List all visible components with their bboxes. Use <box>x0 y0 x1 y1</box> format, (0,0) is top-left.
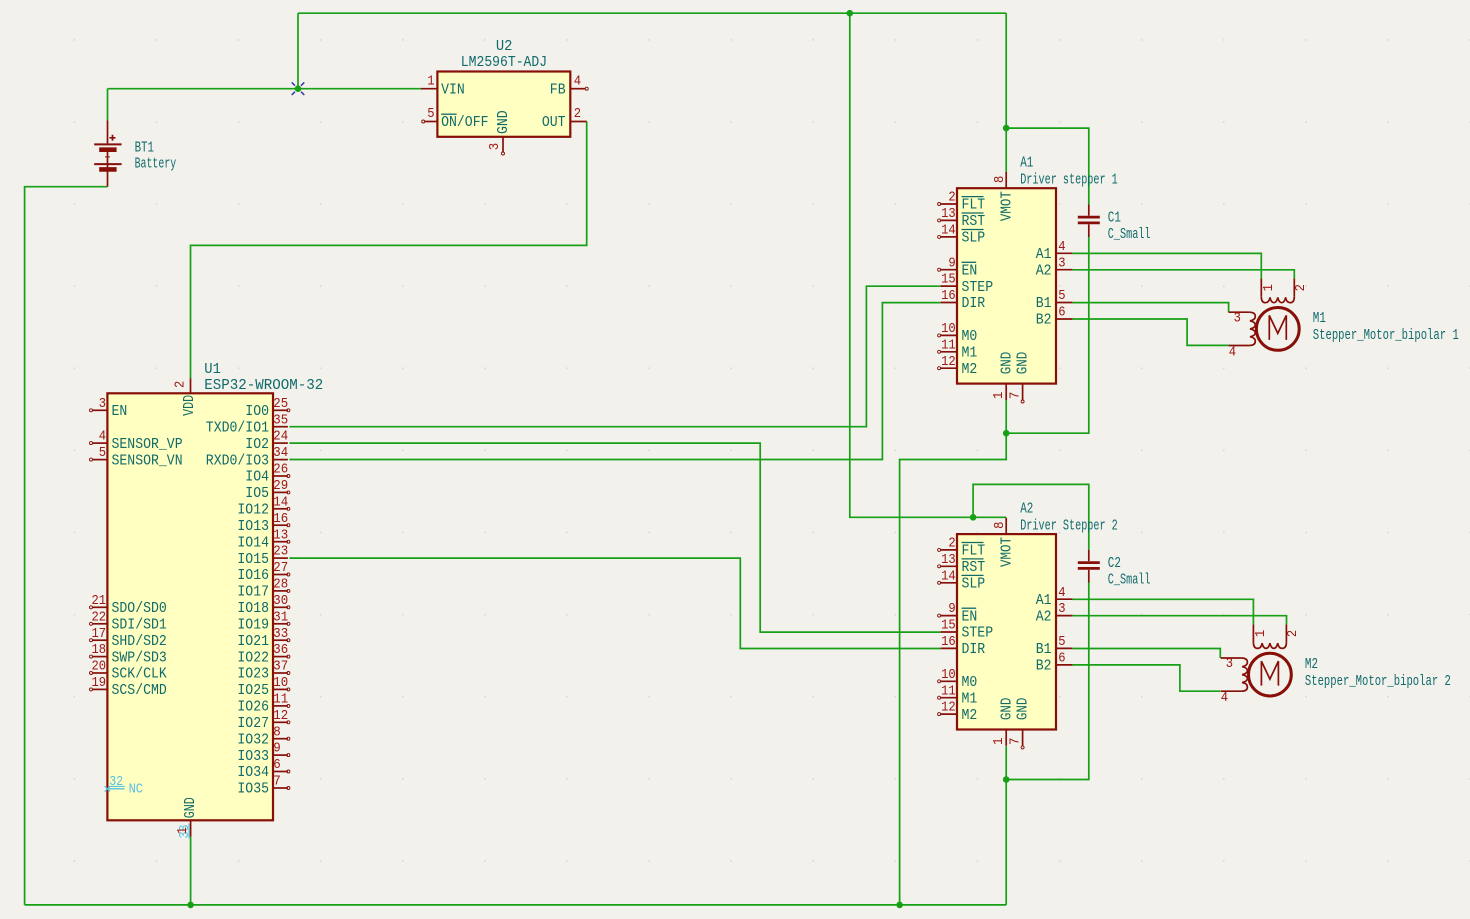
A1 pin 15 STEP <box>941 285 957 287</box>
svg-text:1: 1 <box>991 392 1007 399</box>
battery BT1 symbol <box>107 120 109 143</box>
junction A1 GND / C1 bottom <box>1003 430 1010 437</box>
wire A2.B1 to M2 pin3 <box>1072 649 1220 659</box>
A1 pin 14 SLP <box>941 236 957 238</box>
U1 pin 16 IO13 <box>273 524 288 526</box>
svg-text:IO15: IO15 <box>237 551 269 568</box>
battery plus sign <box>110 135 116 141</box>
U2 pin 4 FB <box>570 88 585 90</box>
U2 pin 5 ON/OFF <box>425 121 438 123</box>
svg-text:5: 5 <box>99 445 106 461</box>
A2 pin 6 B2 <box>1056 664 1072 666</box>
wire TXD0/IO1 to A1 STEP <box>289 286 940 427</box>
A2 pin 14 SLP <box>941 582 957 584</box>
driver A1 body <box>957 188 1056 383</box>
svg-text:27: 27 <box>273 560 288 576</box>
svg-text:BT1: BT1 <box>135 139 154 156</box>
junction battery/VIN riser <box>295 85 302 92</box>
svg-text:IO18: IO18 <box>237 600 269 617</box>
svg-text:GND: GND <box>1015 698 1032 721</box>
A1 pin 8 VMOT <box>1005 172 1007 188</box>
wire bus riser to A2 GND <box>1005 780 1007 905</box>
IC U1 ESP32-WROOM-32 body <box>107 393 273 820</box>
svg-text:NC: NC <box>129 782 143 798</box>
svg-text:RXD0/IO3: RXD0/IO3 <box>206 452 269 469</box>
svg-text:16: 16 <box>941 288 956 304</box>
svg-text:2: 2 <box>172 381 188 388</box>
svg-text:FLT: FLT <box>962 543 986 560</box>
svg-text:IO22: IO22 <box>237 649 269 666</box>
svg-text:8: 8 <box>992 176 1008 183</box>
A1 pin 13 RST <box>941 219 957 221</box>
svg-text:15: 15 <box>941 618 956 634</box>
wire battery plus to U2 VIN <box>108 88 422 90</box>
A2 pin 15 STEP <box>941 631 957 633</box>
A2 pin 2 FLT <box>941 549 957 551</box>
A2 pin 12 M2 <box>941 713 957 715</box>
U1 pin 22 SDI/SD1 <box>92 623 107 625</box>
U1 pin 10 IO25 <box>273 688 288 690</box>
U1 pin 30 IO18 <box>273 606 288 608</box>
svg-text:2: 2 <box>574 106 581 122</box>
svg-text:M1: M1 <box>962 690 978 707</box>
svg-text:IO32: IO32 <box>237 731 269 748</box>
capacitor C2 C_Small <box>1088 550 1090 561</box>
svg-text:RST: RST <box>962 559 986 576</box>
svg-text:35: 35 <box>273 412 288 428</box>
svg-text:IO13: IO13 <box>237 518 269 535</box>
U1 pin 8 IO32 <box>273 738 288 740</box>
svg-text:M2: M2 <box>962 361 978 378</box>
svg-text:SCK/CLK: SCK/CLK <box>112 666 167 683</box>
svg-text:SLP: SLP <box>962 576 986 593</box>
wire A1.A1 to M1 pin1 <box>1072 253 1261 278</box>
svg-text:4: 4 <box>1221 690 1228 706</box>
svg-text:ON/OFF: ON/OFF <box>441 114 488 131</box>
svg-text:A2: A2 <box>1036 608 1052 625</box>
svg-text:IO2: IO2 <box>245 436 269 453</box>
wire A1 GND to bus <box>900 433 1007 905</box>
wire to A2 VMOT <box>850 13 1006 517</box>
wire to A1 VMOT <box>1005 13 1007 172</box>
wire battery minus to GND bus <box>25 187 108 905</box>
U1 pin 7 IO35 <box>273 787 288 789</box>
svg-text:16: 16 <box>941 634 956 650</box>
U1 pin 9 IO33 <box>273 754 288 756</box>
U1 pin 29 IO5 <box>273 491 288 493</box>
svg-text:M2: M2 <box>1305 656 1318 673</box>
U1 pin 25 IO0 <box>273 409 288 411</box>
svg-text:IO35: IO35 <box>237 781 269 798</box>
svg-text:Battery: Battery <box>135 156 177 173</box>
svg-text:SLP: SLP <box>962 230 986 247</box>
svg-text:B2: B2 <box>1036 312 1052 329</box>
svg-text:GND: GND <box>998 698 1015 721</box>
svg-text:12: 12 <box>941 700 956 716</box>
wire A1 GND pin1 drop <box>1005 400 1007 433</box>
svg-text:12: 12 <box>273 708 288 724</box>
svg-text:M1: M1 <box>962 345 978 362</box>
svg-text:IO12: IO12 <box>237 502 269 519</box>
svg-text:Driver stepper 1: Driver stepper 1 <box>1020 172 1118 189</box>
svg-text:LM2596T-ADJ: LM2596T-ADJ <box>461 54 547 71</box>
U1 pin 28 IO17 <box>273 590 288 592</box>
U2 pin 3 GND <box>502 137 504 152</box>
svg-text:4: 4 <box>1058 239 1065 255</box>
svg-text:2: 2 <box>1285 630 1301 637</box>
wire C1 bottom branch <box>1006 236 1089 434</box>
wire IO15 to A2 DIR <box>289 558 940 648</box>
wire IO2 to A2 STEP <box>289 443 940 632</box>
svg-text:C2: C2 <box>1108 555 1121 572</box>
A2 pin 11 M1 <box>941 697 957 699</box>
svg-text:13: 13 <box>941 206 956 222</box>
svg-text:10: 10 <box>273 675 288 691</box>
svg-text:26: 26 <box>273 462 288 478</box>
svg-text:SCS/CMD: SCS/CMD <box>112 682 167 699</box>
svg-text:5: 5 <box>1058 634 1065 650</box>
svg-text:A2: A2 <box>1020 500 1033 517</box>
svg-text:21: 21 <box>92 593 107 609</box>
U1 pin 26 IO4 <box>273 475 288 477</box>
svg-text:VMOT: VMOT <box>998 537 1015 567</box>
svg-text:GND: GND <box>495 110 512 134</box>
svg-text:36: 36 <box>273 642 288 658</box>
svg-text:RST: RST <box>962 213 986 230</box>
svg-text:4: 4 <box>1229 345 1236 361</box>
U1 pin 37 IO23 <box>273 672 288 674</box>
A2 pin 9 EN <box>941 615 957 617</box>
svg-text:1: 1 <box>1261 284 1277 291</box>
A1 pin 16 DIR <box>941 302 957 304</box>
svg-text:VMOT: VMOT <box>998 191 1015 221</box>
A2 pin 4 A1 <box>1056 598 1072 600</box>
svg-text:3: 3 <box>1234 310 1241 326</box>
svg-text:1: 1 <box>175 827 191 834</box>
U1 pin 33 IO21 <box>273 639 288 641</box>
svg-text:C_Small: C_Small <box>1108 226 1151 243</box>
svg-text:3: 3 <box>1058 601 1065 617</box>
svg-text:2: 2 <box>948 536 955 552</box>
svg-text:11: 11 <box>941 683 956 699</box>
svg-text:9: 9 <box>948 255 955 271</box>
junction U1 GND / bus <box>187 902 194 909</box>
svg-text:M1: M1 <box>1313 310 1326 327</box>
junction A2 VMOT / C2 branch <box>970 514 977 521</box>
A2 pin 13 RST <box>941 565 957 567</box>
svg-text:13: 13 <box>941 552 956 568</box>
svg-text:IO23: IO23 <box>237 666 269 683</box>
svg-text:1: 1 <box>427 73 434 89</box>
A1 pin 6 B2 <box>1056 318 1072 320</box>
svg-text:B1: B1 <box>1036 641 1052 658</box>
svg-text:IO26: IO26 <box>237 699 269 716</box>
svg-text:SENSOR_VN: SENSOR_VN <box>112 452 183 469</box>
svg-text:29: 29 <box>273 478 288 494</box>
svg-text:IO4: IO4 <box>245 469 269 486</box>
A2 pin 1 GND <box>1005 730 1007 746</box>
svg-text:IO19: IO19 <box>237 617 269 634</box>
U1 pin 12 IO27 <box>273 721 288 723</box>
svg-text:FB: FB <box>550 81 566 98</box>
svg-text:10: 10 <box>941 667 956 683</box>
junction A2 GND / C2 bottom <box>1003 776 1010 783</box>
U1 pin 21 SDO/SD0 <box>92 606 107 608</box>
svg-text:B1: B1 <box>1036 295 1052 312</box>
junction A1 GND path / bus <box>896 902 903 909</box>
svg-text:20: 20 <box>92 659 107 675</box>
svg-text:IO16: IO16 <box>237 567 269 584</box>
svg-text:3: 3 <box>487 143 503 150</box>
svg-text:C1: C1 <box>1108 210 1121 227</box>
svg-text:33: 33 <box>273 626 288 642</box>
svg-text:22: 22 <box>92 609 107 625</box>
svg-text:5: 5 <box>1058 288 1065 304</box>
A1 pin 11 M1 <box>941 351 957 353</box>
svg-text:U1: U1 <box>204 361 221 378</box>
svg-text:23: 23 <box>273 544 288 560</box>
svg-text:IO17: IO17 <box>237 584 269 601</box>
U1 pin 11 IO26 <box>273 705 288 707</box>
svg-text:7: 7 <box>273 774 281 790</box>
svg-text:18: 18 <box>92 642 107 658</box>
junction A1 VMOT / C1 branch <box>1003 125 1010 132</box>
svg-text:12: 12 <box>941 354 956 370</box>
U1 pin 6 IO34 <box>273 771 288 773</box>
wire battery plus drop <box>107 89 109 121</box>
svg-text:DIR: DIR <box>962 641 986 658</box>
svg-text:SDO/SD0: SDO/SD0 <box>112 600 167 617</box>
svg-text:4: 4 <box>1058 585 1065 601</box>
wire C2 bottom branch <box>1006 581 1089 779</box>
svg-text:1: 1 <box>991 738 1007 745</box>
svg-text:6: 6 <box>1058 651 1065 667</box>
A2 pin 16 DIR <box>941 647 957 649</box>
A1 pin 4 A1 <box>1056 252 1072 254</box>
wire A1.B2 to M1 pin4 <box>1072 319 1228 345</box>
svg-text:A2: A2 <box>1036 262 1052 279</box>
A1 pin 10 M0 <box>941 334 957 336</box>
U1 pin 34 RXD0/IO3 <box>273 459 288 461</box>
wire A2.A2 to M2 pin2 <box>1072 616 1286 625</box>
svg-text:11: 11 <box>273 692 288 708</box>
svg-text:IO27: IO27 <box>237 715 269 732</box>
svg-text:B2: B2 <box>1036 658 1052 675</box>
svg-text:8: 8 <box>992 522 1008 529</box>
U1 pin 19 SCS/CMD <box>92 688 107 690</box>
svg-text:6: 6 <box>1058 305 1065 321</box>
U1 pin 35 TXD0/IO1 <box>273 426 288 428</box>
svg-text:8: 8 <box>273 724 281 740</box>
svg-text:EN: EN <box>962 608 978 625</box>
svg-text:14: 14 <box>941 223 956 239</box>
U1 pin 24 IO2 <box>273 442 288 444</box>
A2 pin 10 M0 <box>941 680 957 682</box>
svg-text:GND: GND <box>1015 352 1032 375</box>
svg-text:34: 34 <box>273 445 288 461</box>
wire U1 GND drop <box>190 837 192 905</box>
svg-text:A1: A1 <box>1036 246 1052 263</box>
svg-text:IO14: IO14 <box>237 534 269 551</box>
wire to A2 GND pin1 <box>1005 746 1007 779</box>
node VIN junction X marker <box>292 82 295 85</box>
A1 pin 9 EN <box>941 269 957 271</box>
svg-text:3: 3 <box>1058 255 1065 271</box>
svg-text:A1: A1 <box>1036 592 1052 609</box>
U1 pin 1/38 GND bottom <box>190 820 192 836</box>
svg-text:2: 2 <box>1293 284 1309 291</box>
U1 pin 20 SCK/CLK <box>92 672 107 674</box>
U1 pin 14 IO12 <box>273 508 288 510</box>
svg-text:SDI/SD1: SDI/SD1 <box>112 617 167 634</box>
svg-text:FLT: FLT <box>962 197 986 214</box>
svg-text:IO5: IO5 <box>245 485 269 502</box>
svg-text:GND: GND <box>182 797 199 818</box>
svg-text:28: 28 <box>273 577 288 593</box>
U1 pin 31 IO19 <box>273 623 288 625</box>
svg-text:7: 7 <box>1007 392 1023 399</box>
A1 pin 2 FLT <box>941 203 957 205</box>
U1 pin 17 SHD/SD2 <box>92 639 107 641</box>
svg-text:TXD0/IO1: TXD0/IO1 <box>206 419 269 436</box>
svg-text:1: 1 <box>1253 630 1269 637</box>
svg-text:32: 32 <box>109 774 123 790</box>
wire U2 OUT to U1 VDD <box>191 122 587 379</box>
wire to C2 top <box>973 484 1089 550</box>
svg-text:15: 15 <box>941 272 956 288</box>
svg-text:OUT: OUT <box>542 114 566 131</box>
wire bottom GND bus <box>25 904 1007 906</box>
svg-text:EN: EN <box>112 403 128 420</box>
A2 pin 8 VMOT <box>1005 518 1007 534</box>
svg-text:STEP: STEP <box>962 625 994 642</box>
U1 pin 18 SWP/SD3 <box>92 656 107 658</box>
wire A2.B2 to M2 pin4 <box>1072 665 1220 691</box>
svg-text:Stepper_Motor_bipolar 2: Stepper_Motor_bipolar 2 <box>1305 673 1451 690</box>
svg-text:A1: A1 <box>1020 155 1033 172</box>
regulator U2 LM2596T-ADJ body <box>437 72 570 137</box>
svg-text:M0: M0 <box>962 674 978 691</box>
U2 pin 2 OUT <box>570 121 586 123</box>
motor M1 Stepper_Motor_bipolar <box>1260 279 1262 297</box>
svg-text:DIR: DIR <box>962 295 986 312</box>
svg-text:IO0: IO0 <box>245 403 269 420</box>
svg-text:EN: EN <box>962 262 978 279</box>
svg-text:25: 25 <box>273 396 288 412</box>
svg-text:STEP: STEP <box>962 279 994 296</box>
svg-text:SWP/SD3: SWP/SD3 <box>112 649 167 666</box>
U1 pin 32 NC <box>107 788 124 790</box>
svg-text:11: 11 <box>941 337 956 353</box>
A1 pin 7 GND <box>1022 384 1024 400</box>
svg-text:4: 4 <box>574 73 581 89</box>
svg-text:16: 16 <box>273 511 288 527</box>
U1 pin 36 IO22 <box>273 656 288 658</box>
svg-text:9: 9 <box>273 741 281 757</box>
svg-text:7: 7 <box>1007 738 1023 745</box>
U1 pin 5 SENSOR_VN <box>92 459 107 461</box>
svg-text:U2: U2 <box>496 38 513 55</box>
svg-text:31: 31 <box>273 609 288 625</box>
svg-text:GND: GND <box>998 352 1015 375</box>
motor M2 Stepper_Motor_bipolar <box>1252 624 1254 642</box>
U1 pin 23 IO15 <box>273 557 288 559</box>
A1 pin 3 A2 <box>1056 269 1072 271</box>
svg-text:M0: M0 <box>962 328 978 345</box>
svg-text:VIN: VIN <box>441 81 465 98</box>
svg-text:14: 14 <box>273 494 288 510</box>
svg-text:IO25: IO25 <box>237 682 269 699</box>
wire to C1 top <box>1006 128 1089 204</box>
svg-text:24: 24 <box>273 429 288 445</box>
wire VIN riser <box>297 13 299 89</box>
A1 pin 12 M2 <box>941 367 957 369</box>
svg-text:IO33: IO33 <box>237 748 269 765</box>
capacitor C1 C_Small <box>1088 205 1090 216</box>
svg-text:13: 13 <box>273 527 288 543</box>
U1 pin 4 SENSOR_VP <box>92 442 107 444</box>
svg-text:IO21: IO21 <box>237 633 269 650</box>
svg-text:6: 6 <box>273 757 281 773</box>
svg-text:14: 14 <box>941 568 956 584</box>
svg-text:9: 9 <box>948 601 955 617</box>
svg-text:4: 4 <box>99 429 106 445</box>
driver A2 body <box>957 534 1056 729</box>
svg-text:5: 5 <box>427 106 434 122</box>
svg-text:IO34: IO34 <box>237 764 269 781</box>
A2 pin 7 GND <box>1022 730 1024 746</box>
svg-text:19: 19 <box>92 675 107 691</box>
svg-text:C_Small: C_Small <box>1108 571 1151 588</box>
U2 pin 1 VIN <box>421 88 437 90</box>
U1 pin 13 IO14 <box>273 541 288 543</box>
junction top bus / A2 VMOT branch <box>847 10 854 17</box>
svg-text:30: 30 <box>273 593 288 609</box>
svg-text:VDD: VDD <box>181 395 198 416</box>
svg-text:Stepper_Motor_bipolar 1: Stepper_Motor_bipolar 1 <box>1313 327 1459 344</box>
wire top power bus <box>298 12 1006 14</box>
wire A1.A2 to M1 pin2 <box>1072 270 1294 279</box>
svg-text:ESP32-WROOM-32: ESP32-WROOM-32 <box>204 377 323 394</box>
U1 pin 3 EN <box>92 409 107 411</box>
A1 pin 1 GND <box>1005 384 1007 400</box>
svg-text:2: 2 <box>948 190 955 206</box>
wire A2.A1 to M2 pin1 <box>1072 599 1253 624</box>
svg-text:M2: M2 <box>962 707 978 724</box>
svg-text:37: 37 <box>273 659 288 675</box>
A2 pin 5 B1 <box>1056 647 1072 649</box>
svg-text:Driver Stepper 2: Driver Stepper 2 <box>1020 517 1118 534</box>
svg-text:SENSOR_VP: SENSOR_VP <box>112 436 183 453</box>
A1 pin 5 B1 <box>1056 302 1072 304</box>
svg-text:3: 3 <box>99 396 106 412</box>
U1 pin 2 VDD top <box>190 378 192 393</box>
svg-text:10: 10 <box>941 321 956 337</box>
A2 pin 3 A2 <box>1056 615 1072 617</box>
U1 pin 27 IO16 <box>273 574 288 576</box>
svg-text:SHD/SD2: SHD/SD2 <box>112 633 167 650</box>
svg-text:3: 3 <box>1226 656 1233 672</box>
wire A1.B1 to M1 pin3 <box>1072 303 1228 313</box>
wire RXD0/IO3 to A1 DIR <box>289 303 940 460</box>
svg-text:17: 17 <box>92 626 107 642</box>
